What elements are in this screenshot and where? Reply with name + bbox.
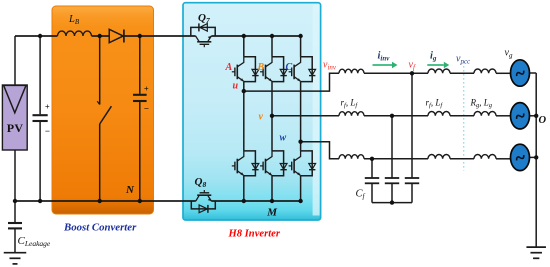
svg-text:O: O bbox=[539, 115, 547, 126]
svg-text:PV: PV bbox=[7, 121, 24, 135]
svg-text:u: u bbox=[233, 81, 239, 92]
svg-text:+: + bbox=[144, 84, 149, 94]
svg-text:N: N bbox=[125, 184, 135, 196]
svg-text:H8 Inverter: H8 Inverter bbox=[228, 229, 281, 240]
svg-text:v: v bbox=[259, 112, 264, 123]
svg-text:B: B bbox=[257, 62, 265, 73]
svg-text:−: − bbox=[45, 126, 50, 136]
svg-text:C: C bbox=[286, 62, 293, 73]
svg-text:w: w bbox=[280, 133, 287, 144]
svg-text:+: + bbox=[45, 101, 50, 111]
svg-text:A: A bbox=[225, 62, 233, 73]
svg-text:−: − bbox=[144, 104, 149, 114]
svg-text:M: M bbox=[266, 206, 278, 218]
svg-text:Boost Converter: Boost Converter bbox=[63, 222, 137, 234]
